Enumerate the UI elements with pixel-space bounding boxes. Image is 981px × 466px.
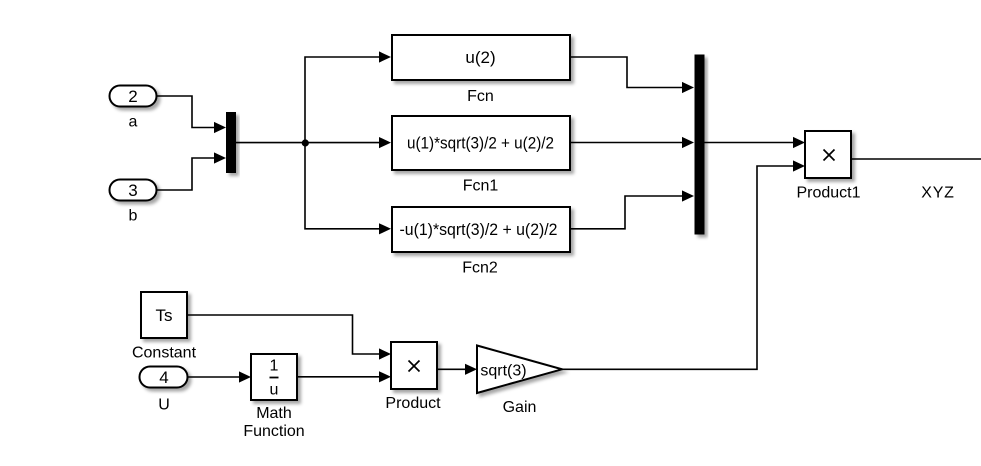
svg-text:Gain: Gain <box>503 399 537 416</box>
wire Math Function to Product <box>297 376 380 378</box>
svg-text:3: 3 <box>128 181 137 200</box>
svg-text:Fcn2: Fcn2 <box>462 260 498 277</box>
svg-text:1: 1 <box>270 358 279 375</box>
svg-text:Math: Math <box>256 405 292 422</box>
svg-text:2: 2 <box>128 87 137 106</box>
svg-text:u(1)*sqrt(3)/2 + u(2)/2: u(1)*sqrt(3)/2 + u(2)/2 <box>407 134 554 153</box>
svg-text:U: U <box>158 397 170 414</box>
svg-text:-u(1)*sqrt(3)/2 + u(2)/2: -u(1)*sqrt(3)/2 + u(2)/2 <box>400 220 558 239</box>
wire mux to junction <box>236 142 305 144</box>
svg-text:Product: Product <box>385 395 441 412</box>
svg-text:4: 4 <box>159 368 168 387</box>
wire mux1 to Product1 <box>705 142 794 144</box>
wire U to Math Function <box>188 376 240 378</box>
inport U (oval 4) <box>140 367 188 388</box>
block Math Function <box>251 354 297 400</box>
block Constant <box>141 292 187 338</box>
block Fcn1 <box>392 116 570 170</box>
svg-text:Fcn1: Fcn1 <box>463 178 499 195</box>
wire Constant to Product <box>187 315 380 354</box>
svg-text:sqrt(3): sqrt(3) <box>480 363 526 380</box>
wire Gain to Product1 <box>562 166 794 369</box>
svg-text:Function: Function <box>243 423 304 440</box>
wire Fcn to mux1 <box>570 57 683 88</box>
svg-text:XYZ: XYZ <box>921 185 955 202</box>
svg-text:Ts: Ts <box>156 306 173 325</box>
svg-text:Fcn: Fcn <box>467 88 494 105</box>
multiply sign Product <box>409 361 420 372</box>
svg-text:a: a <box>129 114 138 131</box>
svg-text:u: u <box>270 382 279 399</box>
svg-text:Product1: Product1 <box>796 185 860 202</box>
wire b to mux <box>156 158 215 190</box>
wire junction to Fcn <box>305 57 380 143</box>
svg-text:u(2): u(2) <box>465 48 495 67</box>
block Product <box>391 342 437 389</box>
inport b (oval 3) <box>110 180 157 201</box>
junction node <box>302 139 309 146</box>
wire a to mux <box>156 96 215 128</box>
wire Fcn2 to mux1 <box>570 196 683 229</box>
wire junction to Fcn1 <box>305 142 380 144</box>
svg-text:Constant: Constant <box>132 345 197 362</box>
block Fcn2 <box>392 207 570 252</box>
mux Mux <box>226 112 236 173</box>
wire Product to Gain <box>437 368 466 370</box>
wire Fcn1 to mux1 <box>570 142 683 144</box>
multiply sign Product1 <box>824 150 835 161</box>
wire Product1 out <box>851 158 981 160</box>
block Fcn <box>392 35 570 80</box>
wire junction to Fcn2 <box>305 143 380 229</box>
svg-text:b: b <box>129 208 138 225</box>
block Product1 <box>805 131 851 178</box>
mux Mux1 <box>695 55 705 235</box>
block Gain <box>477 346 562 394</box>
fraction bar Math Function <box>270 377 279 379</box>
inport a (oval 2) <box>110 86 157 107</box>
